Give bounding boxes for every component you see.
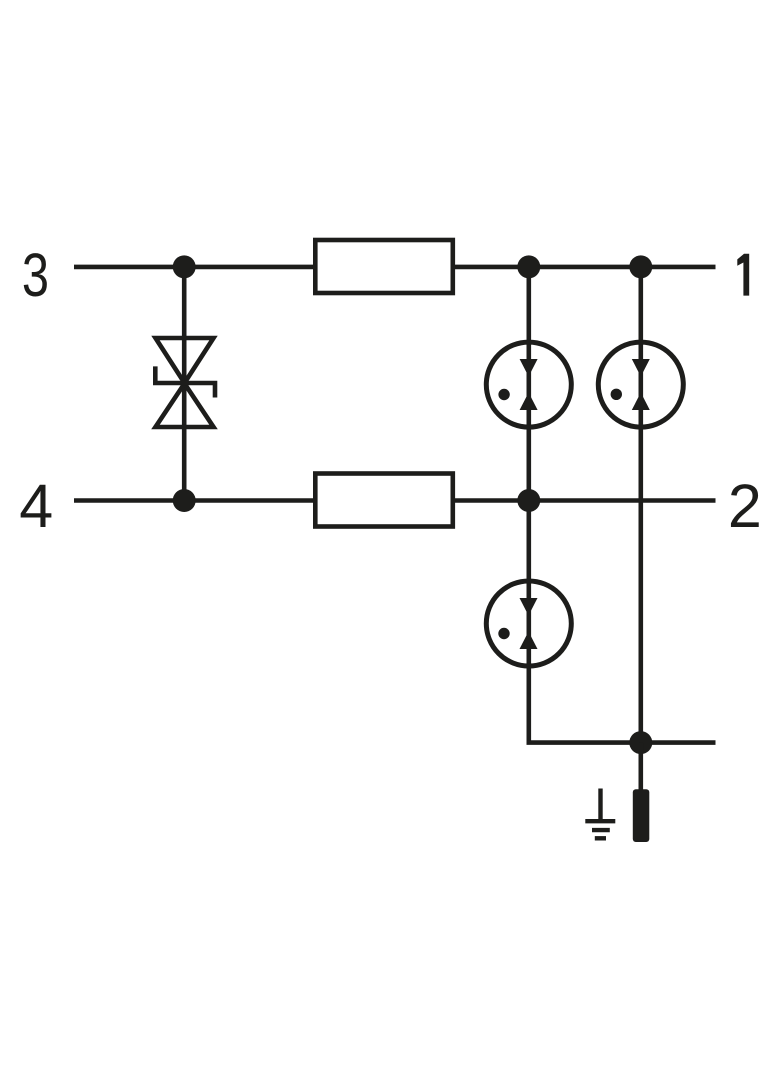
wire: terminal 4 to resistor R2 bbox=[74, 498, 316, 503]
surge arrester earth electrode (filled bar) bbox=[633, 789, 650, 842]
earth ground symbol bbox=[585, 789, 615, 839]
terminal label 1 bbox=[737, 254, 749, 296]
wire: terminal 3 to resistor R1 bbox=[74, 265, 316, 270]
svg-text:2: 2 bbox=[728, 472, 762, 540]
svg-text:4: 4 bbox=[19, 472, 53, 540]
spark gap arrester F1 bbox=[486, 342, 571, 427]
spark gap arrester F2 bbox=[598, 342, 683, 427]
terminal label 4 bbox=[19, 472, 53, 540]
node E: junction wire2 / F3 bbox=[517, 489, 540, 512]
node F: junction earth rail bbox=[629, 731, 652, 754]
wire: bottom horizontal (F3 branch to earth rail) bbox=[527, 740, 716, 745]
svg-text:3: 3 bbox=[22, 241, 49, 309]
wire: vertical branch through arrester F1 (node B to bottom corner) bbox=[526, 267, 531, 743]
node D: junction wire4 / TVS branch bbox=[173, 489, 196, 512]
spark gap arrester F3 bbox=[486, 581, 571, 666]
wire: node F down to electrode bbox=[638, 743, 643, 791]
resistor R1 bbox=[315, 240, 453, 293]
wire: vertical branch through arrester F2 bbox=[638, 267, 643, 743]
resistor R2 bbox=[315, 474, 453, 527]
node C: junction wire1 / F2 bbox=[629, 255, 652, 278]
terminal label 3 bbox=[22, 241, 49, 309]
wire: resistor R1 to terminal 1 bbox=[452, 265, 716, 270]
wire: resistor R2 to terminal 2 bbox=[452, 498, 716, 503]
terminal label 2 bbox=[728, 472, 762, 540]
suppressor diode V1 (bidirectional TVS) bbox=[155, 338, 215, 427]
node A: junction wire3 / TVS branch bbox=[173, 255, 196, 278]
wire: left vertical branch (node A to node B, through TVS) bbox=[182, 267, 187, 501]
node B: junction wire1 / F1 bbox=[517, 255, 540, 278]
